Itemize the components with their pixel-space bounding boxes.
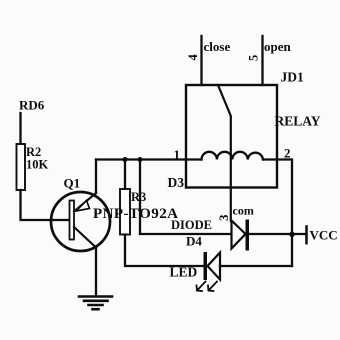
svg-text:DIODE: DIODE bbox=[171, 218, 212, 232]
svg-text:RELAY: RELAY bbox=[275, 114, 321, 129]
resistor R2 bbox=[17, 144, 26, 190]
relay coil D3 bbox=[202, 152, 264, 160]
svg-text:10K: 10K bbox=[26, 158, 49, 172]
wire R2 to base bbox=[21, 190, 70, 220]
svg-text:com: com bbox=[233, 204, 254, 218]
pin 5 wire bbox=[261, 36, 263, 85]
svg-text:RD6: RD6 bbox=[19, 98, 45, 113]
svg-text:D4: D4 bbox=[186, 234, 202, 249]
svg-text:R3: R3 bbox=[131, 190, 146, 204]
LED symbol bbox=[204, 252, 208, 280]
svg-text:2: 2 bbox=[284, 146, 291, 161]
emitter line with arrow (PNP) bbox=[74, 193, 96, 212]
LED emission arrows bbox=[197, 282, 218, 292]
collector line bbox=[74, 227, 96, 248]
wire diode to VCC junction bbox=[249, 233, 306, 235]
wire emitter down to ground bbox=[95, 248, 97, 296]
wire collector up to net bbox=[95, 160, 97, 194]
wire top net to relay pin 1 bbox=[96, 158, 202, 160]
svg-text:VCC: VCC bbox=[310, 228, 338, 243]
ground bbox=[79, 297, 112, 310]
wire dot A to R3 bbox=[124, 160, 126, 190]
svg-text:LED: LED bbox=[170, 265, 198, 280]
node junction dot VCC bbox=[289, 232, 294, 237]
wire RD6 to R2 bbox=[19, 113, 21, 144]
relay switch lever bbox=[218, 85, 231, 221]
svg-text:JD1: JD1 bbox=[281, 70, 304, 85]
svg-text:1: 1 bbox=[174, 147, 181, 162]
power VCC terminal bbox=[305, 227, 308, 244]
wire R3 to LED line bbox=[125, 235, 204, 267]
resistor R3 bbox=[120, 189, 130, 235]
wire dot B down to diode line bbox=[140, 160, 232, 235]
svg-text:open: open bbox=[264, 39, 292, 54]
svg-text:close: close bbox=[204, 39, 231, 54]
svg-text:D3: D3 bbox=[168, 175, 185, 190]
relay JD1 box bbox=[186, 85, 277, 188]
node junction dot A bbox=[123, 157, 128, 162]
node junction dot B bbox=[138, 157, 143, 162]
svg-text:4: 4 bbox=[186, 54, 200, 61]
svg-text:PNP-TO92A: PNP-TO92A bbox=[93, 206, 178, 222]
wire coil pin 2 bbox=[263, 160, 292, 267]
pin 4 wire bbox=[200, 36, 202, 85]
wire LED to pin2 net bbox=[220, 265, 292, 267]
svg-text:Q1: Q1 bbox=[64, 176, 81, 191]
diode D4 bbox=[232, 221, 246, 249]
svg-text:3: 3 bbox=[216, 214, 231, 221]
svg-text:5: 5 bbox=[247, 55, 261, 61]
